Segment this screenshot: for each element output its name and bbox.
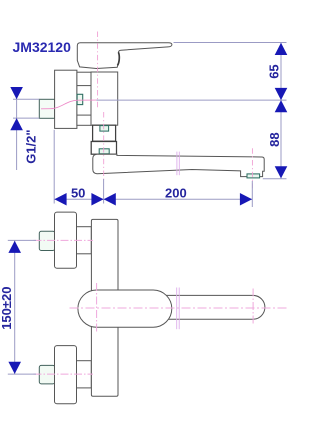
centerline handle axis (side view) [97,32,99,109]
arrow G1/2 bottom [10,118,23,130]
centerline inlet eccentric S (side view) [41,100,96,109]
svg-text:50: 50 [71,186,85,201]
collar 1 teal tab [100,126,109,132]
wire G1/2 extension top [13,98,39,100]
wire extension line inlet axis right (dim 65/88) [96,99,286,101]
centerline upper inlet (front view) [34,239,94,241]
wire dimension line 50/200 horizontal [54,198,252,200]
handle cap and lever (side view) [77,43,172,69]
wire dimension line 150 vertical [14,241,16,375]
lower wall flange (front view) [55,346,77,404]
eccentric neck (side view) [77,72,91,125]
wire dimension line vertical right [280,43,282,179]
arrow G1/2 top [10,87,23,99]
section line pair (side view spout) [176,152,178,176]
centerline aerator axis (side view) [251,148,253,188]
collar 2 teal tab [99,149,109,154]
svg-text:200: 200 [165,185,187,200]
svg-text:JM32120: JM32120 [13,39,72,55]
spout collar 2 (side view) [91,142,116,155]
arrow dim65/88 middle bowtie [275,88,288,100]
wire extension aerator axis vertical (dim 200) [251,181,253,207]
spout collar 1 (side view) [93,125,116,141]
upper step piece (front view) [76,227,91,254]
body capsule escutcheon (front view) [78,290,172,327]
wire extension line top (handle top, dim 65) [174,42,287,44]
wire extension wall face vertical (dim 50) [53,130,55,204]
arrow dim200 right [240,193,252,206]
arrow dim50/200 bowtie [91,193,103,206]
centerline valve axis vertical (front view) [96,283,98,334]
wall flange (side view) [55,70,77,128]
svg-text:G1/2": G1/2" [23,129,38,163]
faucet body (side view) [91,72,118,125]
wire extension spout axis vertical (dim 50/200) [103,179,105,204]
wall nipple G1/2 (side view) [39,99,54,118]
arrow dim88 bottom [275,166,288,178]
centerline lower inlet (front view) [34,373,94,375]
svg-text:65: 65 [266,64,281,78]
wire extension 150 top (front view) [8,239,36,241]
eccentric neck divider top [77,85,91,87]
wire G1/2 dimension line vertical [16,87,18,170]
lower step piece (front view) [76,361,91,388]
arrow dim65 top [275,43,288,55]
body column (front view) [91,219,118,396]
centerline capsule horizontal (front view) [70,307,288,309]
wire G1/2 extension bottom [13,117,39,119]
wire extension line spout outlet bottom (dim 88) [263,178,287,180]
wire extension 150 bottom (front view) [8,373,36,375]
handle knuckle arc (dark) [118,52,120,65]
centerline lever end vertical (front view) [252,289,254,326]
aerator insert (teal) [247,174,260,178]
centerline spout joint axis (side view) [103,112,105,180]
svg-text:150±20: 150±20 [0,287,14,330]
section line pair (front view lever) [176,288,178,330]
svg-text:88: 88 [267,132,282,146]
handle lever (front view) [165,295,265,319]
arrow dim150 bottom [8,362,21,374]
arrow dim50 left [54,193,66,206]
arrow dim150 top [8,241,21,253]
spout tube (side view) [93,154,264,176]
eccentric neck divider bottom [77,114,91,116]
inlet port marker (teal) [77,94,83,104]
lower wall nipple (front view, teal) [39,365,55,384]
upper wall flange (front view) [55,212,77,268]
upper wall nipple (front view, teal) [39,231,55,250]
